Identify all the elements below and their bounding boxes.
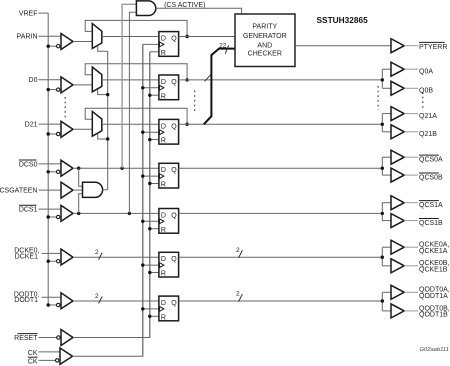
output buffer QCS0A bbox=[391, 150, 404, 164]
pin label QODT0B,QODT1B bbox=[419, 305, 450, 318]
junction: reset / DODT FF bbox=[148, 315, 151, 318]
figure id G02aab111 bbox=[420, 347, 449, 353]
junction: clock / DODT FF bbox=[141, 307, 144, 310]
flip-flop D21 bbox=[159, 119, 179, 144]
flip-flop PARIN bbox=[159, 32, 179, 57]
svg-text:SSTUH32865: SSTUH32865 bbox=[317, 15, 369, 25]
input buffer CSGATEEN bbox=[61, 182, 73, 198]
svg-text:Q: Q bbox=[171, 79, 177, 86]
wire: reset tap to DCS1 flip-flop bbox=[150, 228, 159, 230]
junction: QODT A/B branch bbox=[381, 299, 384, 302]
wire: clock tap to DODT flip-flop bbox=[143, 308, 159, 310]
wire: D0 mux output to D bbox=[102, 79, 159, 81]
net label CK bbox=[28, 350, 38, 357]
svg-text:2: 2 bbox=[236, 247, 240, 254]
wire: CK buffer output to clock rail bbox=[73, 44, 143, 356]
net label DCKE0,DCKE1 bbox=[14, 248, 39, 261]
svg-text:QCKE1B: QCKE1B bbox=[419, 266, 448, 273]
pin label QCS0A bbox=[419, 155, 443, 163]
pin label QCKE0B,QCKE1B bbox=[419, 260, 449, 273]
wire: VREF reference vertical rail bbox=[47, 13, 49, 305]
wire: clock tap to DCKE flip-flop bbox=[143, 264, 159, 266]
wire: DCS0 input bbox=[39, 163, 62, 165]
wire: Q21 branch to A/B buffers bbox=[382, 114, 391, 132]
wire: PARIN buffer output to mux bbox=[73, 41, 92, 43]
svg-text:QCS0B: QCS0B bbox=[419, 174, 443, 181]
pin label QCS0B bbox=[419, 173, 443, 181]
wire: reset tap to DCS0 flip-flop bbox=[150, 183, 159, 185]
output buffer QODTB bbox=[391, 304, 404, 318]
wire: RESET input bbox=[39, 337, 57, 339]
wire: DCS1 branch up to AND bbox=[79, 194, 83, 214]
output buffer QCKEA bbox=[391, 240, 404, 254]
wire: RESET buffer output to reset rail bbox=[73, 52, 150, 338]
svg-text:Q21A: Q21A bbox=[419, 113, 437, 120]
wire: VREF tap to DODT0, buffer bbox=[48, 304, 56, 306]
wire: DCKE0,DCKE1 input bbox=[42, 252, 62, 254]
junction: clock / DCS1 FF bbox=[141, 220, 144, 223]
flip-flop DCS1 bbox=[159, 209, 179, 234]
svg-text:AND: AND bbox=[257, 43, 272, 50]
junction: reset / D21 FF bbox=[148, 138, 151, 141]
svg-text:G02aab111: G02aab111 bbox=[420, 347, 449, 353]
net label D21 bbox=[25, 122, 38, 129]
wire: D0 feedback (Q to mux) bbox=[85, 64, 187, 80]
input buffer RESET (inverting input) bbox=[57, 330, 73, 346]
net label RESET (active low) bbox=[14, 334, 38, 342]
junction: Q0 A/B branch bbox=[381, 78, 384, 81]
junction: VREF / DCKE0, bbox=[47, 260, 50, 263]
wire: mux select vertical (CS latch enable) bbox=[107, 51, 109, 190]
wire: QCKE branch to A/B buffers bbox=[382, 247, 391, 266]
svg-text:CHECKER: CHECKER bbox=[248, 50, 282, 57]
wire: CS AND output to select rail bbox=[103, 189, 108, 191]
wire: Q0B buffer to pin bbox=[404, 87, 418, 89]
svg-text:R: R bbox=[161, 138, 166, 145]
svg-text:PARIN: PARIN bbox=[17, 34, 38, 41]
junction: VREF / DCS0 bbox=[47, 170, 50, 173]
wire: D21 mux output to D bbox=[102, 123, 159, 125]
wire: Q21A buffer to pin bbox=[404, 113, 418, 115]
svg-text:(CS ACTIVE): (CS ACTIVE) bbox=[164, 2, 205, 9]
svg-text:QCS0A: QCS0A bbox=[419, 156, 443, 163]
wire: reset tap to D0 flip-flop bbox=[150, 94, 159, 96]
wire: reset tap to DODT flip-flop bbox=[150, 315, 159, 317]
junction: VREF / DCS1 bbox=[47, 215, 50, 218]
wire: VREF stub bbox=[39, 12, 49, 14]
pin label QODT0A,QODT1A bbox=[419, 287, 450, 300]
ellipsis: Q0..Q21 pins bbox=[422, 92, 424, 108]
junction: QCS0 A/B branch bbox=[381, 167, 384, 170]
svg-text:R: R bbox=[161, 227, 166, 234]
wire: D21 mux select tap bbox=[98, 134, 108, 139]
wire: VREF tap to DCS0 buffer bbox=[48, 171, 56, 173]
wire: QCS1A buffer to pin bbox=[404, 202, 418, 204]
wire: D21 input bbox=[39, 123, 62, 125]
junction: DCS0 to CS AND bbox=[77, 167, 80, 170]
wire: clock tap to DCS1 flip-flop bbox=[143, 220, 159, 222]
wire: CK input bbox=[39, 351, 61, 353]
wire: D21 Q output line bbox=[179, 123, 383, 125]
net label (CS ACTIVE) bbox=[164, 2, 205, 9]
wire: reset tap to D21 flip-flop bbox=[150, 139, 159, 141]
wire: QCS1 branch to A/B buffers bbox=[382, 203, 391, 221]
wire: D21 feedback (Q to mux) bbox=[85, 108, 187, 124]
junction: D0 Q feedback tap bbox=[185, 78, 188, 81]
wire: QODTB buffer to pin bbox=[404, 310, 418, 312]
svg-text:D: D bbox=[161, 212, 166, 219]
svg-text:QCS1B: QCS1B bbox=[419, 220, 443, 227]
wire: CS ACTIVE to parity checker bbox=[156, 8, 242, 14]
wire: DCKE0,DCKE1 buffer output to D (2-bit) bbox=[73, 256, 159, 258]
junction: Q21 A/B branch bbox=[381, 123, 384, 126]
flip-flop DODT bbox=[159, 296, 179, 321]
wire: DODT Q output line bbox=[179, 300, 383, 302]
wire: clock tap to DCS0 flip-flop bbox=[143, 175, 159, 177]
wire: CKbar input bbox=[39, 359, 56, 361]
svg-text:2: 2 bbox=[95, 249, 99, 256]
wire: DCS1 input bbox=[39, 208, 62, 210]
net label PARIN bbox=[17, 34, 38, 41]
junction: VREF / D0 bbox=[47, 88, 50, 91]
net label DODT0,DODT1 bbox=[14, 292, 40, 305]
wire: DCS1 Q output line bbox=[179, 212, 383, 214]
wire: DCS0 branch down to AND bbox=[79, 168, 83, 186]
svg-text:R: R bbox=[161, 314, 166, 321]
wire: QCKEB buffer to pin bbox=[404, 265, 418, 267]
wire: Q21B buffer to pin bbox=[404, 131, 418, 133]
svg-text:R: R bbox=[161, 50, 166, 57]
output buffer PTYERR bbox=[391, 39, 404, 53]
junction: DCS1 to CS-ACTIVE AND bbox=[128, 212, 131, 215]
wire: clock tap to PARIN flip-flop bbox=[143, 43, 159, 45]
net label DCS0 (active low) bbox=[19, 160, 38, 168]
title SSTUH32865 bbox=[317, 15, 369, 25]
junction: clock / DCS0 FF bbox=[141, 174, 144, 177]
svg-text:R: R bbox=[161, 93, 166, 100]
AND gate (CS ACTIVE) bbox=[136, 1, 155, 16]
wire: QODT branch to A/B buffers bbox=[382, 292, 391, 311]
wire: D21 buffer output to mux bbox=[73, 128, 92, 130]
wire: DCS0 buffer output to D bbox=[73, 167, 159, 169]
pin label Q21B bbox=[419, 131, 437, 138]
wire: QCS0B buffer to pin bbox=[404, 174, 418, 176]
input buffer PARIN bbox=[57, 34, 74, 50]
ellipsis: D0..D21 flip-flops bbox=[194, 91, 196, 115]
wire: DODT0,DODT1 input bbox=[42, 296, 62, 298]
flip-flop DCS0 bbox=[159, 163, 179, 188]
wire: clock tap to D0 flip-flop bbox=[143, 87, 159, 89]
bus width marker 2 (DCKE0, input side) bbox=[95, 249, 102, 260]
svg-text:D: D bbox=[161, 123, 166, 130]
output buffer Q0A bbox=[391, 62, 404, 76]
svg-text:PARITY: PARITY bbox=[252, 23, 277, 30]
svg-text:QCS1A: QCS1A bbox=[419, 202, 443, 209]
junction: VREF / PARIN bbox=[47, 45, 50, 48]
wire: clock tap to D21 flip-flop bbox=[143, 131, 159, 133]
input buffer CK/CK bbox=[56, 348, 73, 364]
wire: DCS0 sense vertical to CS-ACTIVE AND bbox=[122, 4, 136, 168]
input buffer D0 bbox=[57, 77, 74, 93]
svg-text:VREF: VREF bbox=[19, 11, 38, 18]
wire: Q0 branch to A/B buffers bbox=[382, 69, 391, 88]
mux PARIN bbox=[92, 24, 102, 49]
svg-text:Q0A: Q0A bbox=[419, 68, 433, 75]
junction: reset / D0 FF bbox=[148, 94, 151, 97]
wire: PARIN feedback (Q to mux) bbox=[85, 20, 187, 36]
ellipsis: Q0..Q21 output buffers bbox=[377, 86, 379, 110]
svg-text:Q: Q bbox=[171, 300, 177, 307]
svg-text:D21: D21 bbox=[25, 122, 38, 129]
svg-text:D: D bbox=[161, 300, 166, 307]
wire: PARIN mux output to D bbox=[102, 36, 159, 38]
junction: DCS0 to CS-ACTIVE AND bbox=[120, 167, 123, 170]
junction: clock / DCKE FF bbox=[141, 263, 144, 266]
svg-text:CSGATEEN: CSGATEEN bbox=[0, 188, 38, 195]
wire: D0 input bbox=[39, 79, 62, 81]
svg-text:GENERATOR: GENERATOR bbox=[243, 33, 287, 40]
output buffer QCKEB bbox=[391, 259, 404, 273]
pin label Q0A bbox=[419, 68, 433, 75]
svg-text:D: D bbox=[161, 256, 166, 263]
wire: DCS1 sense vertical to CS-ACTIVE AND bbox=[129, 12, 136, 213]
junction: reset / DCS1 FF bbox=[148, 227, 151, 230]
svg-text:QCKE1A: QCKE1A bbox=[419, 248, 448, 255]
junction: D21 Q feedback tap bbox=[185, 123, 188, 126]
svg-text:PTYERR: PTYERR bbox=[419, 44, 447, 51]
junction: reset / DCKE FF bbox=[148, 271, 151, 274]
wire: QCS0 branch to A/B buffers bbox=[382, 157, 391, 175]
net label DCS1 (active low) bbox=[19, 205, 38, 213]
svg-text:D: D bbox=[161, 36, 166, 43]
junction: VREF / D21 bbox=[47, 132, 50, 135]
svg-text:22: 22 bbox=[219, 42, 227, 49]
junction: DCS1 to CS AND bbox=[77, 212, 80, 215]
wire: QODTA buffer to pin bbox=[404, 291, 418, 293]
output buffer Q21A bbox=[391, 107, 404, 121]
junction: reset / DCS0 FF bbox=[148, 182, 151, 185]
svg-text:CK: CK bbox=[28, 358, 38, 365]
pin label QCKE0A,QCKE1A bbox=[419, 242, 449, 255]
wire: DCS0 Q output line bbox=[179, 167, 383, 169]
wire: DCS1 buffer output to D bbox=[73, 212, 159, 214]
svg-text:Q21B: Q21B bbox=[419, 131, 437, 138]
output buffer QCS0B bbox=[391, 168, 404, 182]
wire: QCKEA buffer to pin bbox=[404, 246, 418, 248]
junction: select / D21 mux bbox=[106, 137, 109, 140]
wire: PARIN Q to parity checker bbox=[179, 36, 235, 38]
wire: parity output to PTYERR buffer bbox=[295, 45, 391, 47]
output buffer QODTA bbox=[391, 285, 404, 299]
svg-text:QODT1B: QODT1B bbox=[419, 312, 448, 319]
mux D21 bbox=[92, 111, 102, 136]
svg-text:D: D bbox=[161, 167, 166, 174]
pin label Q0B bbox=[419, 88, 433, 95]
pin label QCS1B bbox=[419, 219, 443, 227]
svg-text:Q: Q bbox=[171, 256, 177, 263]
svg-text:DCS0: DCS0 bbox=[19, 161, 38, 168]
svg-text:2: 2 bbox=[95, 293, 99, 300]
net label CSGATEEN bbox=[0, 188, 38, 195]
net label D0 bbox=[29, 77, 38, 84]
ellipsis: D0..D21 input buffers bbox=[64, 97, 66, 119]
bus ripper: D0 Q into bus bbox=[205, 75, 211, 82]
bus width marker 2 (DODT output side) bbox=[236, 291, 242, 302]
wire: DODT0,DODT1 buffer output to D (2-bit) bbox=[73, 300, 159, 302]
svg-text:Q: Q bbox=[171, 212, 177, 219]
wire: VREF tap to DCS1 buffer bbox=[48, 216, 56, 218]
wire: QCS0A buffer to pin bbox=[404, 156, 418, 158]
output buffer Q0B bbox=[391, 81, 404, 95]
junction: VREF / DODT0, bbox=[47, 303, 50, 306]
wire: VREF tap to D21 buffer bbox=[48, 133, 56, 135]
svg-text:RESET: RESET bbox=[14, 335, 38, 342]
svg-text:DCKE1: DCKE1 bbox=[15, 253, 38, 260]
svg-text:R: R bbox=[161, 182, 166, 189]
junction: select / D0 mux bbox=[106, 93, 109, 96]
wire: PTYERR buffer to pin bbox=[404, 45, 418, 47]
AND gate (CS gating) bbox=[83, 182, 103, 197]
wire: VREF tap to DCKE0, buffer bbox=[48, 260, 56, 262]
input buffer D21 bbox=[57, 121, 74, 137]
bus width marker 2 (DCKE output side) bbox=[236, 247, 242, 258]
wire: QCS1B buffer to pin bbox=[404, 220, 418, 222]
wire: VREF tap to PARIN buffer bbox=[48, 45, 56, 47]
bus width marker 22 bbox=[219, 42, 228, 53]
wire: CSGATEEN buffer output to AND bbox=[73, 189, 83, 191]
svg-text:CK: CK bbox=[28, 350, 38, 357]
net label VREF bbox=[19, 11, 38, 18]
mux D0 bbox=[92, 67, 102, 92]
input buffer DCKE0,DCKE1 bbox=[57, 249, 74, 265]
parity generator and checker U1 bbox=[235, 14, 295, 67]
flip-flop D0 bbox=[159, 75, 179, 100]
junction: QCS1 A/B branch bbox=[381, 212, 384, 215]
junction: QCKE A/B branch bbox=[381, 256, 384, 259]
net label CK inverted bbox=[28, 357, 38, 365]
svg-text:DODT1: DODT1 bbox=[14, 297, 38, 304]
output buffer QCS1A bbox=[391, 196, 404, 210]
svg-text:D0: D0 bbox=[29, 77, 38, 84]
wire: PARIN mux select tap bbox=[98, 46, 108, 51]
pin label QCS1A bbox=[419, 201, 443, 209]
svg-text:2: 2 bbox=[236, 291, 240, 298]
wire: D0 Q output line bbox=[179, 79, 383, 81]
flip-flop DCKE bbox=[159, 252, 179, 277]
bus width marker 2 (DODT0, input side) bbox=[95, 293, 102, 304]
output buffer QCS1B bbox=[391, 214, 404, 228]
input buffer DCS1 bbox=[57, 205, 74, 221]
pin label Q21A bbox=[419, 113, 437, 120]
bus: 22-bit parity bus bbox=[204, 49, 235, 125]
wire: clock vertical rail bbox=[142, 44, 144, 356]
input buffer DODT0,DODT1 bbox=[57, 293, 74, 309]
output buffer Q21B bbox=[391, 125, 404, 139]
wire: VREF tap to D0 buffer bbox=[48, 89, 56, 91]
junction: clock / D21 FF bbox=[141, 131, 144, 134]
svg-text:D: D bbox=[161, 79, 166, 86]
wire: reset tap to DCKE flip-flop bbox=[150, 272, 159, 274]
svg-text:Q0B: Q0B bbox=[419, 88, 433, 95]
svg-text:Q: Q bbox=[171, 123, 177, 130]
svg-text:R: R bbox=[161, 271, 166, 278]
wire: reset vertical rail bbox=[149, 52, 151, 338]
wire: DCKE Q output line bbox=[179, 256, 383, 258]
wire: CSGATEEN input bbox=[39, 189, 62, 191]
wire: Q0A buffer to pin bbox=[404, 68, 418, 70]
wire: D0 buffer output to mux bbox=[73, 84, 92, 86]
pin label PTYERR bbox=[419, 42, 447, 50]
wire: reset tap to PARIN flip-flop bbox=[150, 51, 159, 53]
wire: D0 mux select tap bbox=[98, 89, 108, 94]
junction: clock / D0 FF bbox=[141, 86, 144, 89]
input buffer DCS0 bbox=[57, 160, 74, 176]
wire: PARIN input bbox=[39, 35, 62, 37]
svg-text:Q: Q bbox=[171, 36, 177, 43]
svg-text:DCS1: DCS1 bbox=[19, 207, 38, 214]
svg-text:QODT1A: QODT1A bbox=[419, 293, 448, 300]
junction: PARIN Q feedback tap bbox=[185, 35, 188, 38]
svg-text:Q: Q bbox=[171, 167, 177, 174]
